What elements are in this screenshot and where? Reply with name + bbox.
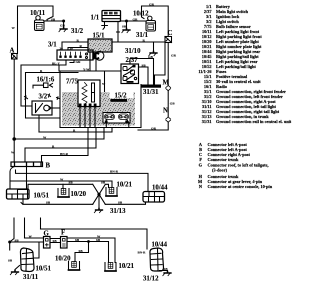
legend list of components [198, 4, 291, 124]
wire R radio branch rail [26, 72, 79, 74]
svg-text:F: F [61, 230, 65, 237]
connector M symbol [166, 86, 171, 91]
svg-text:Connector trunk: Connector trunk [208, 157, 239, 162]
legend list of connectors [198, 142, 273, 189]
svg-text:10/44: 10/44 [152, 185, 168, 192]
svg-text:3/1: 3/1 [48, 42, 57, 49]
svg-text:30: 30 [60, 46, 64, 50]
wire OR from N into central unit [138, 122, 168, 130]
svg-text:7/75: 7/75 [66, 79, 79, 86]
svg-text:30: 30 [70, 46, 74, 50]
wire R 15/1 to ignition lock second pin 30 [68, 48, 88, 51]
ground rail 31/31 bar [142, 85, 162, 88]
equipment enclosure frame around 16/1:6 and 3/2 [26, 73, 61, 119]
connector A [12, 54, 18, 60]
wire W from B to lamp 10/21 [10, 181, 112, 188]
wire R 15/1 to ignition lock pin 30 [62, 42, 88, 50]
light switch 3/2 [32, 101, 60, 132]
wire down to ground 31/2 [63, 21, 65, 29]
wire GB connector M to N [167, 91, 169, 117]
30-rail 15/2 white patch [110, 91, 134, 98]
svg-text:BN-R: BN-R [110, 170, 119, 174]
ignition lock 3/1 key cylinder [92, 51, 104, 60]
wire R stepped from 3/2 to central unit [39, 128, 112, 133]
wire GR to lamp 10/12 [120, 20, 146, 22]
svg-text:G: G [44, 231, 50, 238]
wire W from F to lamp 10/21 5-door [67, 238, 115, 263]
wire SB left to lamp 10/51 bottom [21, 199, 93, 204]
fuse 11/22 [119, 114, 129, 128]
wire SB lamp 10/51 top to junction [28, 184, 93, 189]
battery negative pin to chassis ground [102, 22, 108, 30]
ignition lock 3/1 [57, 50, 93, 60]
bracket mark GR near 3/1 [70, 61, 74, 63]
svg-text:A: A [10, 48, 15, 55]
svg-text:BL-Y: BL-Y [52, 61, 60, 65]
central electrical unit shaded body [60, 71, 141, 128]
svg-text:GB: GB [60, 24, 66, 28]
lamp 10/20 left number plate light [58, 189, 69, 198]
connector 16/1:6 radio [33, 83, 53, 88]
wire BL-Y from 3/1 down to light switch 3/2 [21, 60, 66, 106]
svg-text:15/1: 15/1 [93, 33, 106, 40]
ground 31/11 [10, 271, 18, 275]
wire feed loop to lamp 10/11 [18, 6, 54, 54]
wire lamp 10/51 5-door second pin [35, 242, 40, 258]
svg-text:(3-door): (3-door) [212, 167, 228, 172]
wire GB from 2/37 top to ground rail [130, 59, 154, 85]
wires G to F [50, 239, 61, 243]
wire to lamp 10/44 5-door [41, 229, 148, 249]
wire W horizontal to central unit [14, 128, 104, 140]
wire lamp 10/11 to ground, SB [45, 20, 62, 22]
svg-text:10/21: 10/21 [119, 263, 135, 270]
ground 31/2 [59, 28, 67, 32]
wire R from 15/1 right to frame corner and rail [112, 42, 165, 85]
svg-text:3/2: 3/2 [39, 94, 48, 101]
svg-text:GR: GR [149, 2, 155, 6]
svg-text:BN-R: BN-R [138, 251, 147, 255]
svg-text:N: N [163, 108, 168, 115]
svg-text:31/2: 31/2 [71, 28, 84, 35]
main light switch 2/37 [121, 64, 139, 84]
pointer asterisk marks at 3/2 [25, 94, 60, 99]
wire BN-R stepped to central unit [42, 128, 89, 163]
harness continuation wires to 5-door section [10, 218, 41, 242]
svg-text:B: B [46, 163, 51, 170]
svg-text:10/51: 10/51 [36, 266, 52, 273]
svg-text:15/2: 15/2 [115, 93, 128, 100]
junction node on W rail [12, 137, 16, 141]
wire SB to connector G [10, 241, 44, 243]
wire W from connector A down left side [13, 59, 15, 139]
svg-text:10/11: 10/11 [30, 10, 46, 17]
svg-text:Y-W: Y-W [83, 67, 90, 71]
ground 31/1 [122, 29, 130, 33]
feed loop wire GR to lamp 10/12 [142, 6, 169, 37]
svg-text:1/1: 1/1 [91, 15, 100, 22]
wire W to connector G [25, 237, 44, 239]
svg-text:GB: GB [170, 102, 176, 106]
lamp 10/11 left parking light front [35, 16, 48, 31]
svg-text:GR: GR [133, 17, 139, 21]
lamp 10/44 right parking rear 5-door [150, 248, 164, 271]
node at X junction [97, 193, 100, 196]
fuse box area [103, 113, 130, 124]
svg-text:BN-R: BN-R [60, 152, 69, 156]
connector F [61, 237, 68, 249]
node on SB wire [87, 240, 90, 243]
svg-text:31/11: 31/11 [23, 274, 39, 281]
svg-text:GR: GR [76, 60, 82, 64]
wire W from Y-W down to 30-rail [104, 72, 106, 99]
svg-text:10/20: 10/20 [71, 191, 87, 198]
wire Y-W to main light switch 2/37 [59, 65, 121, 71]
wire SB right to lamp 10/44 bottom [105, 202, 145, 204]
ground 31/10 stub [153, 42, 155, 53]
wire lamp 10/20 stub [62, 184, 64, 188]
crossing wires X junction [93, 184, 109, 204]
svg-text:31/31: 31/31 [143, 89, 159, 96]
svg-text:Connector at centre console, 1: Connector at centre console, 10-pin [208, 184, 273, 189]
lamp 10/21 right number plate 5-door [105, 263, 116, 272]
battery positive pin wire down to R wire [117, 22, 120, 43]
battery 1/1 [102, 11, 121, 22]
lamp 10/21 right number plate light [106, 188, 117, 197]
positive terminal 15/1 box [88, 39, 112, 52]
svg-text:M: M [163, 80, 170, 87]
30-rail 15/2 black bar [111, 99, 128, 102]
connector N symbol [166, 117, 171, 122]
wire SB from F [67, 242, 109, 263]
svg-text:OR: OR [151, 126, 157, 130]
svg-text:GR: GR [171, 54, 177, 58]
7/75 bottom pins [79, 104, 97, 108]
svg-text:31/31: 31/31 [202, 119, 212, 124]
svg-text:GB: GB [148, 55, 154, 59]
connector B [11, 162, 43, 167]
ground 31/10 [149, 52, 157, 56]
wires 15/1 to central unit [90, 52, 96, 71]
wire lamp 10/51 to ground 31/11 [15, 266, 20, 272]
node at ground 31/1 [125, 20, 128, 23]
lamp 10/51 left parking light rear [7, 189, 30, 199]
wire SB branch to lamp 10/20 5-door [75, 242, 89, 262]
wire BN-R from B to lamp 10/44 [16, 170, 149, 192]
wire B to lamp 10/51 rear [10, 167, 27, 190]
lamp 10/51 left parking rear 5-door [20, 248, 34, 272]
ground 31/12 [163, 272, 171, 276]
svg-text:F: F [199, 157, 202, 162]
bulb failure sensor 7/75 box [78, 80, 100, 107]
wire to ground 31/13 [98, 194, 100, 209]
connector G [44, 237, 51, 249]
node feed left tail 5-door [8, 241, 11, 244]
svg-text:10/21: 10/21 [117, 182, 133, 189]
svg-text:2/37: 2/37 [126, 57, 139, 64]
lamp 10/44 right parking light rear [143, 192, 165, 203]
svg-text:C: C [168, 30, 173, 37]
wires from 7/75 pins through unit [80, 108, 95, 128]
lamp 10/12 right parking light front [146, 16, 156, 31]
svg-text:31/12: 31/12 [143, 276, 159, 283]
wire SB down to ground 31/1 [126, 21, 128, 30]
svg-text:31/13: 31/13 [110, 208, 126, 215]
wire lamp 10/44 to ground 31/12 [160, 271, 168, 273]
svg-text:11/22: 11/22 [119, 115, 127, 119]
wire R stepped to central unit [25, 128, 96, 163]
svg-text:10/44: 10/44 [152, 242, 168, 249]
svg-text:Ground connection rail in cent: Ground connection rail in central el. un… [216, 119, 292, 124]
wire SB from 2/37 right to ground rail [139, 67, 149, 85]
lamp 10/20 left number plate 5-door [69, 262, 80, 271]
ground 31/13 [94, 209, 102, 213]
node junction at 31/2 [62, 20, 65, 23]
svg-text:10/51: 10/51 [34, 193, 50, 200]
wire W rail down to connector B [13, 139, 15, 162]
wire down to lamp 10/51 5-door [9, 242, 11, 250]
svg-text:31/10: 31/10 [125, 48, 141, 55]
svg-text:11/21: 11/21 [105, 115, 113, 119]
connector C [165, 37, 172, 43]
fuse 11/21 [105, 114, 115, 128]
wire GR connector C down to M [167, 43, 169, 86]
svg-text:10/20: 10/20 [55, 256, 71, 263]
svg-text:16/1:6: 16/1:6 [37, 77, 55, 84]
